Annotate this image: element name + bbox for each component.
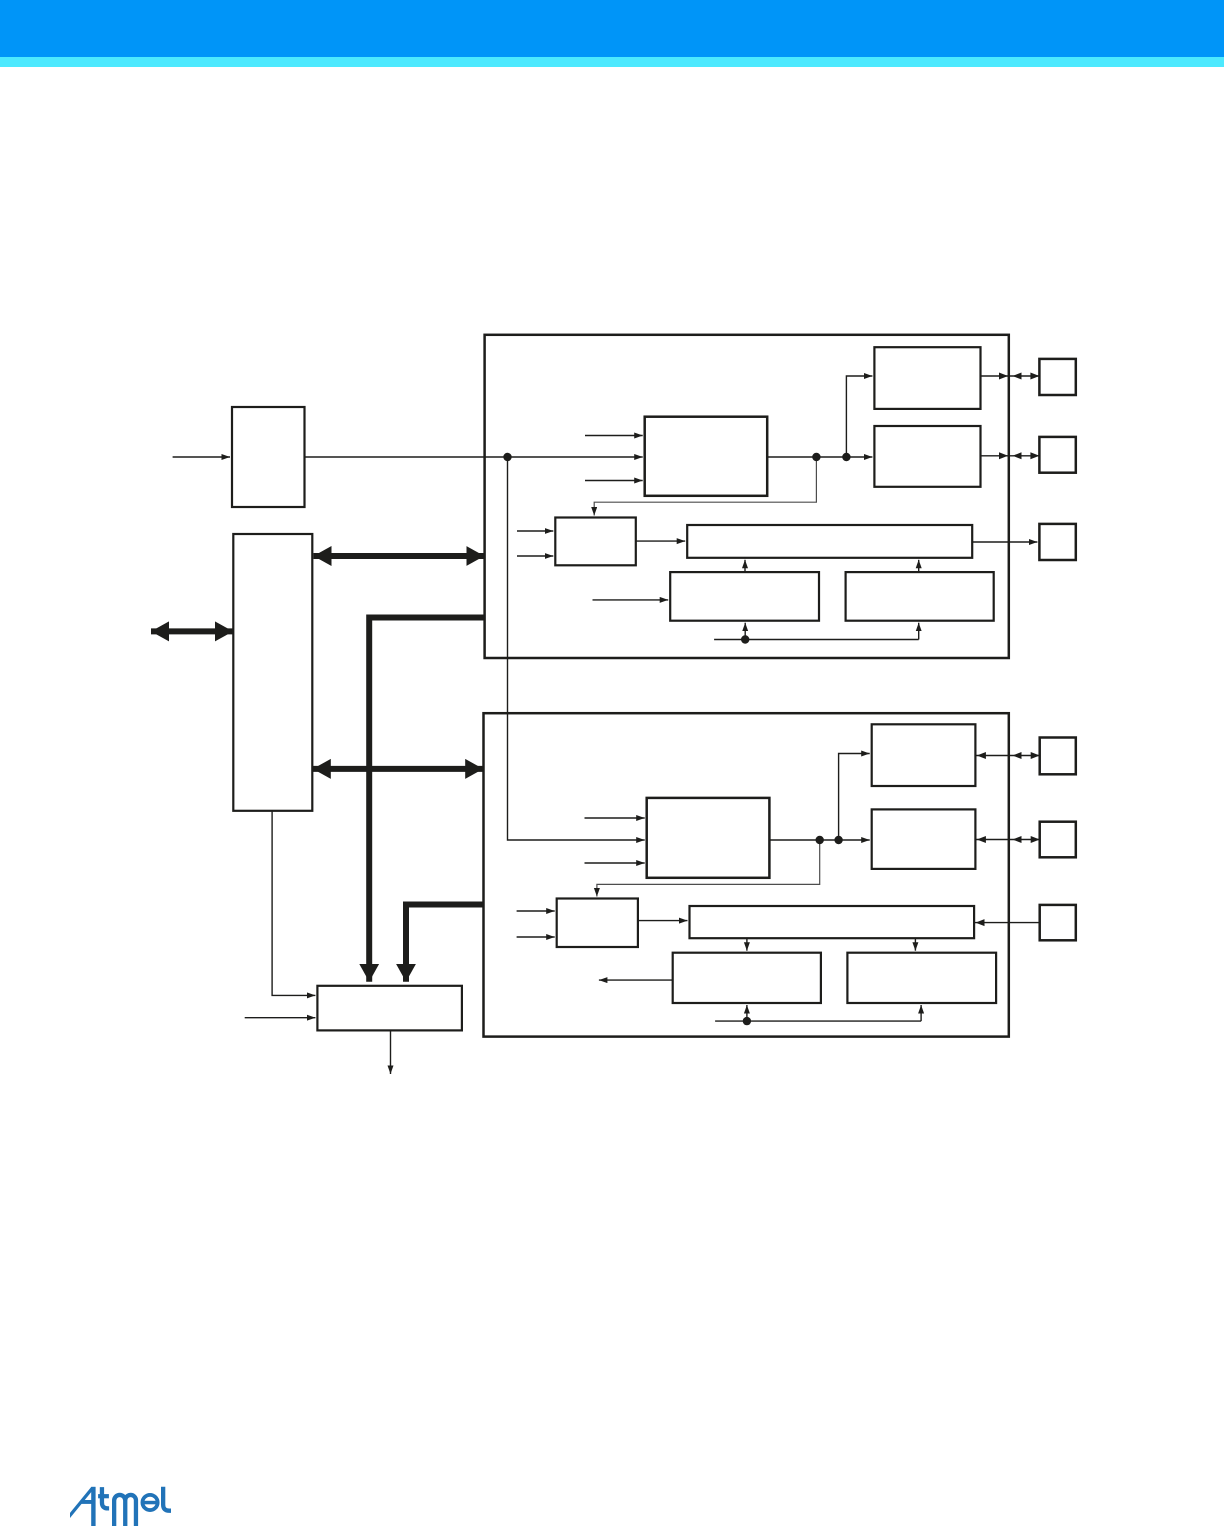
wire: pin line register1-square1: [981, 375, 1040, 377]
wire: box B up to wide box: [918, 560, 920, 572]
arrowhead: into wide box (left, from square6): [976, 919, 985, 926]
top block: wide box: [687, 525, 972, 558]
wire: wide box down to box B: [914, 938, 916, 951]
wire: bottom small box to wide box: [638, 920, 688, 922]
wire: branch up to register box 1: [846, 376, 872, 457]
bottom block: register box 1: [872, 724, 976, 786]
wire: feedback up into box A (bottom): [746, 1005, 748, 1021]
arrowhead: into square5 (right): [1031, 836, 1040, 843]
pin square 3: [1039, 524, 1075, 560]
pin square 4: [1040, 738, 1076, 775]
wire: bottom feedback line (bottom block): [715, 1020, 921, 1022]
node: top feedback junction: [741, 635, 749, 643]
wire: prescaler output down: [390, 1030, 392, 1074]
arrowhead: outer edge toward reg2b (left): [1013, 836, 1022, 843]
wire: wide box down to box A: [746, 938, 748, 951]
pin square 6: [1040, 905, 1076, 940]
wire: square6 into wide box: [974, 922, 1040, 924]
bottom block: register box 2: [872, 809, 976, 869]
arrowhead: into square1 (right): [1030, 373, 1039, 380]
top block: control box: [645, 417, 768, 496]
wire: input arrow to prescaler: [245, 1017, 316, 1019]
header blue band: [0, 0, 1224, 57]
node: bottom block output junction 1: [816, 836, 824, 844]
top block: small box: [555, 518, 636, 566]
node: top block output junction 2: [842, 453, 850, 461]
box top-left (clock source): [232, 407, 305, 507]
Atmel logo: [70, 1486, 174, 1526]
bus arrow: off-page left (bidirectional): [151, 628, 233, 634]
wire: pin line register2-square2: [981, 455, 1040, 457]
wire: bottom control box output to register box 2: [769, 839, 869, 841]
pin square 2: [1039, 437, 1075, 473]
wire: pin line register2b-square5: [975, 839, 1039, 841]
prescaler box: [317, 986, 462, 1031]
pin square 5: [1040, 822, 1076, 858]
wire: clock line from top-left box to control box: [305, 456, 643, 458]
wire: bottom stub into control box top: [585, 817, 645, 819]
tall box (registers/bus interface): [233, 534, 312, 811]
top block: box B: [846, 572, 994, 621]
bus elbow: top block to prescaler: [369, 618, 484, 982]
arrowhead: into square4 (right): [1031, 752, 1040, 759]
top block: box A: [670, 572, 819, 621]
wire: feedback up into box B (bottom): [920, 1005, 922, 1021]
outer box top block: [485, 335, 1009, 658]
wire: feedback up into box B: [918, 623, 920, 640]
node: top block output junction 1: [812, 453, 820, 461]
node: clock branch junction: [503, 453, 511, 461]
bus elbow: bottom block to prescaler: [406, 905, 484, 982]
wire: stub into small box (bottom): [517, 555, 553, 557]
wire: input arrow to top-left box: [173, 456, 230, 458]
bus arrow: tall box to top block (bidirectional): [314, 553, 485, 559]
wire: bottom feedback line (top block): [714, 639, 919, 641]
wire: bottom stub into control box bottom: [585, 862, 645, 864]
bus arrow: tall box to bottom block (bidirectional): [313, 766, 483, 772]
wire: stub into bottom small box (top): [517, 910, 555, 912]
arrowhead: into reg1b (left): [977, 752, 986, 759]
wire: input arrow to box A: [593, 599, 669, 601]
arrowhead: outer edge toward reg2 (left): [1013, 452, 1022, 459]
arrowhead: reg2 to outer edge (right): [999, 452, 1008, 459]
wire: feedback elbow to small box (bottom block): [597, 842, 820, 897]
bottom block: wide box: [690, 906, 975, 938]
wire: small box to wide box: [636, 540, 685, 542]
arrowhead: outer edge toward reg1 (left): [1013, 373, 1022, 380]
node: bottom feedback junction: [743, 1017, 751, 1025]
node: bottom block output junction 2: [834, 836, 842, 844]
wire: stub into bottom small box (bottom): [517, 936, 555, 938]
wire: feedback elbow to small box (top block): [594, 459, 816, 516]
bottom block: control box: [647, 798, 770, 878]
wire: box A up to wide box: [744, 560, 746, 572]
top block: register box 1: [874, 347, 980, 409]
wire: stub into control box top: [585, 435, 643, 437]
outer box bottom block: [484, 713, 1009, 1036]
wire: feedback up into box A: [744, 623, 746, 640]
top block: register box 2: [874, 426, 980, 487]
arrowhead: into reg2b (left): [977, 836, 986, 843]
wire: bottom branch up to register box 1: [839, 754, 870, 841]
wire: control box output to register box 2: [767, 456, 872, 458]
bottom block: box A: [673, 953, 821, 1003]
wire: box A output to the left: [599, 979, 673, 981]
arrowhead: outer edge toward reg1b (left): [1013, 752, 1022, 759]
header cyan strip: [0, 57, 1224, 67]
wire: stub into control box bottom: [585, 480, 643, 482]
wire: tall box down to prescaler: [272, 811, 315, 996]
wire: stub into small box (top): [517, 530, 553, 532]
wire: wide box to square3: [972, 541, 1037, 543]
wire: clock branch down to bottom control box: [508, 457, 645, 840]
bottom block: small box: [557, 899, 638, 948]
arrowhead: reg1 to outer edge (right): [999, 373, 1008, 380]
wire: pin line register1b-square4: [975, 755, 1039, 757]
arrowhead: into square2 (right): [1030, 452, 1039, 459]
bottom block: box B: [847, 953, 996, 1003]
pin square 1: [1039, 359, 1075, 395]
